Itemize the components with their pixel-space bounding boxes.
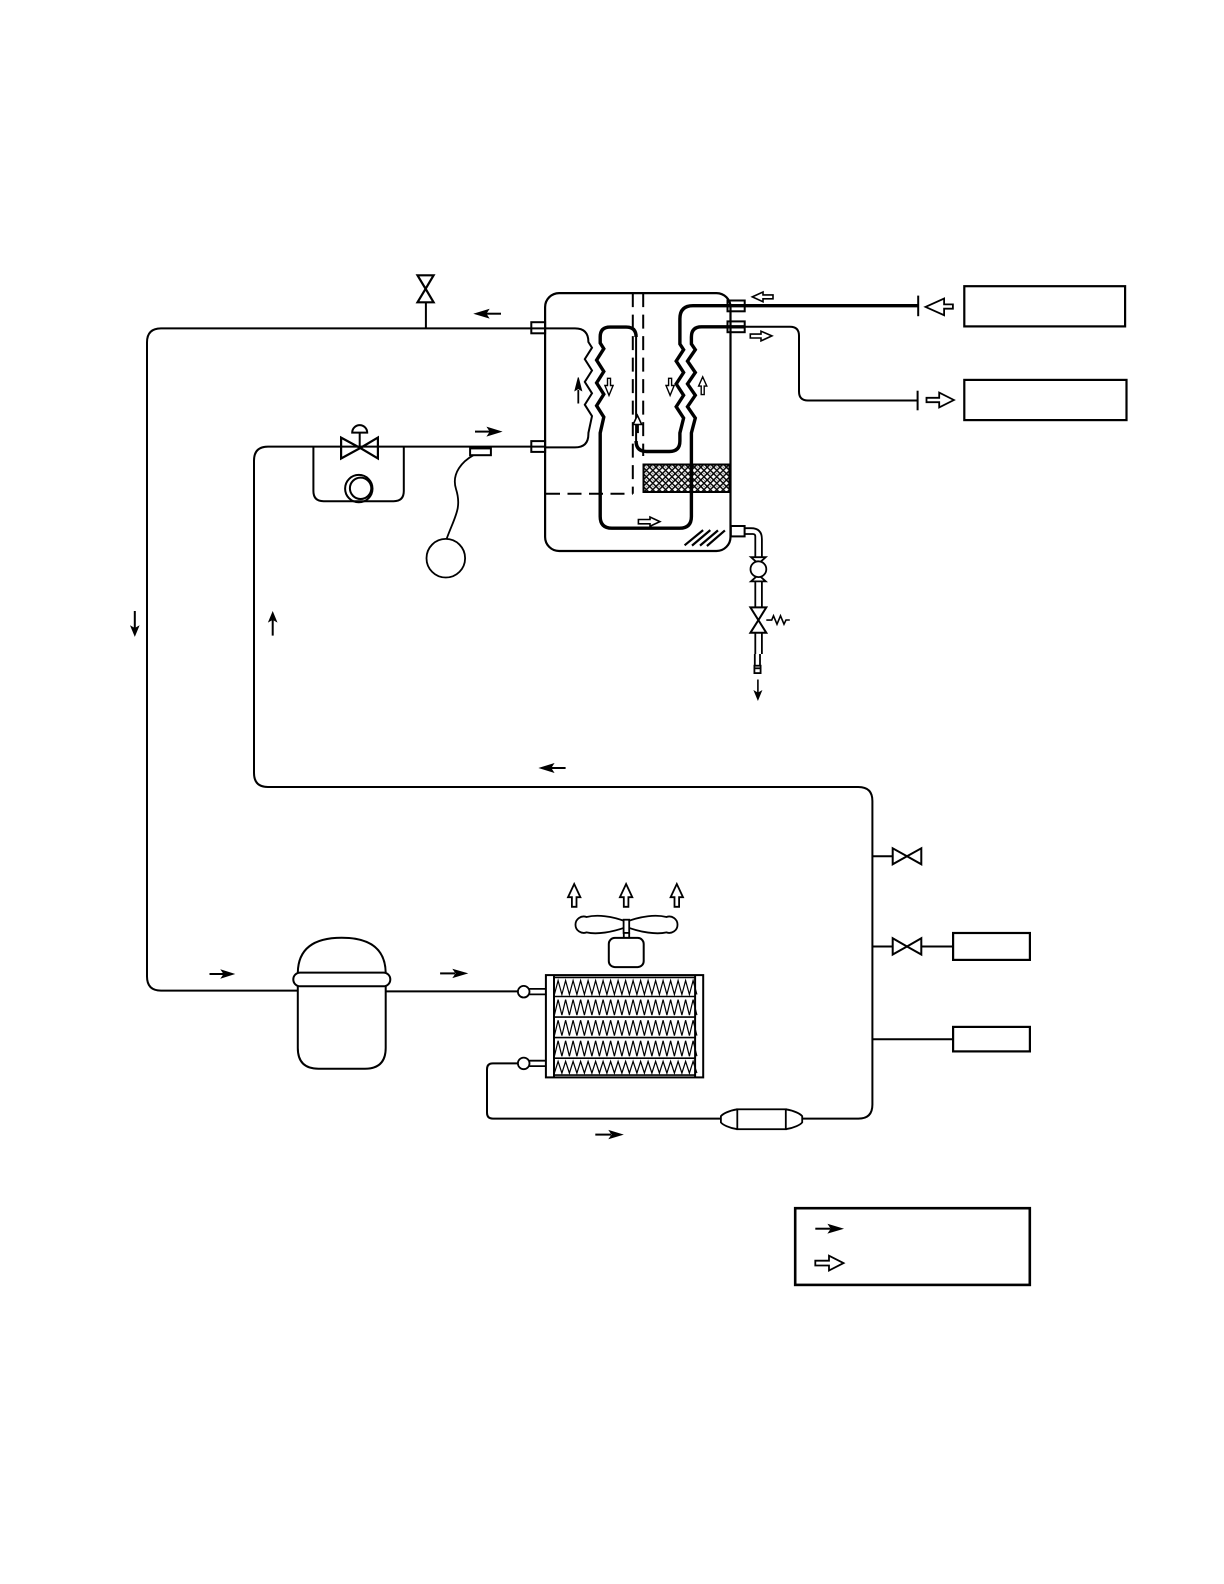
flow arrow down on suction downcomer (131, 611, 139, 636)
pipe end tick (917, 296, 919, 317)
label box hot gas in (964, 286, 1125, 326)
condenser finned coil block (546, 975, 703, 1077)
liquid surface hatch marks in tank (685, 530, 725, 546)
sight glass (751, 557, 767, 581)
condenser fan blades (575, 916, 677, 938)
flow arrow into compressor (210, 970, 234, 978)
pipe between sight glass and drain valve (755, 581, 762, 607)
fan motor (609, 938, 644, 967)
drain discharge arrow (754, 680, 761, 700)
pipe end tick 2 (917, 391, 919, 411)
tank port upper left (531, 322, 545, 333)
flow arrow on discharge line (440, 970, 466, 978)
open left arrow at hot gas connection (926, 299, 953, 316)
electric heater element (crosshatched) (644, 465, 730, 493)
thermostatic expansion valve (341, 425, 378, 458)
filter drier (721, 1109, 802, 1129)
open down arrow right chamber (666, 378, 674, 395)
liquid out pipe to external connection (745, 327, 918, 401)
service valve on suction pipe (418, 275, 434, 328)
water level dashed line (546, 493, 633, 495)
compressor / accumulator vessel (293, 938, 390, 1069)
service valve stub 2 with label box (872, 938, 953, 954)
water coil inside tank (thin wavy arch) (546, 328, 592, 447)
open right arrow at liquid connection (927, 393, 954, 408)
tank port lower left (531, 441, 545, 452)
refrigerant coil inside tank (thick path) (636, 306, 744, 452)
flow arrow up on liquid riser (269, 612, 277, 635)
condenser outlet connector circle (518, 1058, 546, 1070)
refrigerant coil inside tank (thick path, left loop) (597, 327, 745, 528)
tank port hot gas inlet right (728, 301, 745, 312)
internal partition dashed line left (632, 293, 634, 494)
tank port liquid out right (728, 321, 745, 332)
open down arrow left chamber (605, 378, 613, 395)
condenser outlet pipe to filter drier (487, 1063, 721, 1118)
service valve stub 1 on receiver line (872, 848, 921, 864)
liquid line: expansion valve feed, down, return line to receiver loop (254, 447, 872, 1119)
tank drain port (731, 526, 745, 536)
expansion valve body box with equalizer coil (313, 447, 403, 503)
riser arrow: open head, solid shaft (633, 415, 642, 433)
drain pipe double line with elbow (745, 528, 762, 557)
internal partition dashed line right (642, 293, 644, 456)
suction pipe from tank to compressor (147, 328, 546, 990)
stub 3 with label box (872, 1038, 953, 1040)
flow arrow right on liquid line to tank (475, 428, 501, 436)
hot gas pipe to external connection (thick) (745, 304, 919, 307)
drain needle valve with spring handle (750, 607, 789, 632)
TXV sensing bulb and capillary (427, 448, 491, 577)
small open right arrow below liquid out port (750, 331, 772, 341)
drain outlet tube (754, 633, 762, 673)
water heat exchanger tank vessel (545, 293, 730, 551)
flow arrow on suction pipe (left) (475, 310, 501, 318)
flow arrow left on return line (540, 764, 566, 772)
condenser inlet connector circle (518, 986, 546, 998)
air flow open arrows above fan (568, 884, 580, 907)
riser tube between partitions (635, 337, 637, 443)
legend box (795, 1208, 1030, 1285)
discharge line compressor to condenser (386, 990, 518, 992)
water flow arrow up inside tank (575, 378, 582, 404)
open up arrow right chamber (699, 377, 707, 395)
flow arrow on liquid pipe bottom (595, 1131, 622, 1139)
open right arrow in bottom chamber (638, 517, 660, 526)
small open left arrow near tank top right (752, 292, 773, 302)
label box liquid out (964, 380, 1126, 420)
